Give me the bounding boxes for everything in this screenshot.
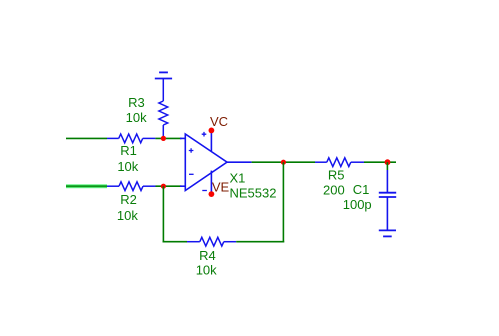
svg-text:R4: R4 <box>199 248 216 263</box>
pin + input stub <box>180 137 185 139</box>
op-amp X1 triangle body <box>185 134 227 191</box>
label R1 value 10k <box>117 143 138 174</box>
ground (bottom of C1) <box>379 230 396 236</box>
power VC terminal dot <box>209 127 215 133</box>
svg-text:10k: 10k <box>117 159 138 174</box>
svg-text:VC: VC <box>210 114 228 129</box>
wire feedback right vertical <box>282 162 284 242</box>
node A junction R1/R3 <box>161 136 166 141</box>
VE - marker <box>202 190 207 192</box>
pin output stub <box>227 161 252 163</box>
svg-text:NE5532: NE5532 <box>230 185 277 200</box>
resistor R2 <box>107 182 156 191</box>
svg-text:200: 200 <box>323 183 345 198</box>
power VE terminal dot <box>209 191 215 197</box>
wire R1 input <box>66 137 107 139</box>
wire feedback bottom left <box>163 241 187 243</box>
capacitor C1 <box>379 170 396 230</box>
op-amp X1 <box>180 130 252 194</box>
svg-text:VE: VE <box>212 180 230 195</box>
svg-text:100p: 100p <box>343 197 372 212</box>
svg-text:10k: 10k <box>196 263 217 278</box>
ground (top, flipped) <box>155 72 172 78</box>
resistor R5 <box>315 158 364 167</box>
label X1 NE5532 <box>230 170 277 200</box>
wire feedback left vertical <box>162 186 164 242</box>
op-amp - input marker <box>189 173 194 175</box>
wire R2 input (selected, bright green) <box>66 184 107 188</box>
label C1 value 100p <box>343 182 372 212</box>
pin VE stub <box>210 171 212 195</box>
pin VC stub <box>210 130 212 151</box>
svg-text:10k: 10k <box>117 208 138 223</box>
label R5 value 200 <box>323 168 345 198</box>
resistor R1 <box>107 134 155 143</box>
wire C1 top stub <box>386 162 388 170</box>
svg-text:R5: R5 <box>328 168 345 183</box>
op-amp + input marker <box>189 148 194 153</box>
resistor R3 <box>159 79 168 139</box>
wire R2 to node B <box>156 185 182 187</box>
pin - input stub <box>180 185 185 187</box>
svg-text:R2: R2 <box>120 192 137 207</box>
svg-text:R1: R1 <box>120 143 137 158</box>
label R4 value 10k <box>196 248 217 278</box>
node C output junction <box>281 160 286 165</box>
label R2 value 10k <box>117 192 138 223</box>
svg-text:C1: C1 <box>353 182 370 197</box>
wire output to node C <box>252 161 315 163</box>
wire feedback bottom right <box>236 241 284 243</box>
node B junction R2/feedback <box>161 184 166 189</box>
label R3 value 10k <box>126 95 147 125</box>
wire R1 to node A <box>155 137 181 139</box>
node D junction R5/C1 <box>385 159 391 165</box>
VC + marker <box>202 132 207 137</box>
resistor R4 <box>187 237 236 246</box>
svg-text:10k: 10k <box>126 110 147 125</box>
wire R5 to node D <box>364 161 396 163</box>
svg-text:X1: X1 <box>230 170 246 185</box>
svg-text:R3: R3 <box>128 95 145 110</box>
